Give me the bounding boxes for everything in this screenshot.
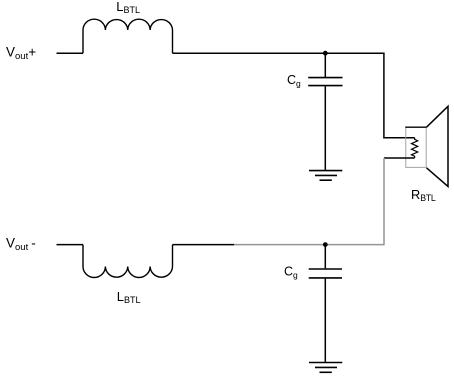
ground top bbox=[309, 171, 342, 181]
capacitor C2 Cg bottom plates bbox=[309, 269, 342, 278]
inductor L1 LBTL top bbox=[83, 19, 173, 53]
wire top rail to speaker plus terminal bbox=[384, 53, 415, 137]
resistor RBTL zigzag bbox=[412, 138, 418, 158]
wire speaker minus terminal bbox=[384, 157, 415, 159]
wire C2 upper lead bbox=[324, 245, 326, 269]
speaker frame top edge bbox=[405, 126, 426, 128]
inductor L2 LBTL bottom bbox=[83, 245, 173, 278]
speaker cone bbox=[427, 106, 449, 186]
svg-text:LBTL: LBTL bbox=[117, 289, 141, 305]
capacitor C1 Cg top plates bbox=[308, 78, 342, 86]
wire Vout- lead bbox=[57, 244, 84, 246]
svg-text:RBTL: RBTL bbox=[411, 187, 436, 203]
wire C1 upper lead bbox=[324, 53, 326, 77]
node junction top bbox=[323, 51, 328, 56]
wire top rail bbox=[173, 52, 385, 54]
ground bottom bbox=[309, 363, 342, 373]
svg-text:Cg: Cg bbox=[287, 73, 301, 89]
wire Vout+ lead bbox=[57, 52, 84, 54]
speaker frame sides bbox=[406, 127, 426, 167]
svg-text:Vout-: Vout- bbox=[6, 236, 36, 253]
svg-text:LBTL: LBTL bbox=[116, 0, 140, 15]
wire C2 lower lead bbox=[324, 279, 326, 363]
wire C1 lower lead bbox=[324, 86, 326, 170]
node junction bottom bbox=[323, 242, 328, 247]
svg-text:Vout+: Vout+ bbox=[6, 45, 36, 62]
wire bottom rail bbox=[173, 244, 235, 246]
wire speaker to bottom rail (gray) bbox=[234, 158, 384, 245]
svg-text:Cg: Cg bbox=[284, 265, 298, 281]
